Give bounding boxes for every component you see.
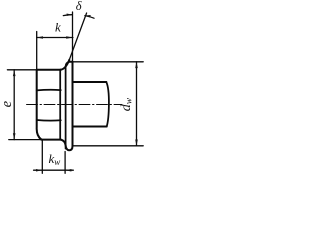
e arrow bottom [13, 133, 16, 139]
hex head top edge [37, 69, 61, 71]
delta arc arrow left tail [63, 14, 72, 17]
k extension line (head face, up) [36, 32, 38, 70]
k dimension line [37, 37, 73, 39]
centerline (bolt axis, dash-dot) [27, 104, 123, 106]
hex face line upper [37, 89, 61, 92]
shank top line [73, 81, 107, 83]
delta arc arrow right head [85, 15, 91, 18]
flange cone (top) [60, 60, 69, 70]
kw dimension line [34, 169, 74, 171]
hex head bottom edge [41, 139, 61, 141]
dw bottom extension line [73, 145, 144, 147]
e bottom extension line [9, 139, 41, 141]
hex face line lower [37, 119, 61, 122]
flange rim line [66, 62, 69, 149]
svg-text:δ: δ [76, 0, 82, 13]
e top extension line [7, 69, 36, 71]
kw arrow right (outside) [65, 169, 71, 172]
dw top extension line [73, 61, 144, 63]
svg-text:k: k [55, 20, 61, 35]
dw arrow top [135, 62, 138, 68]
kw left extension line [41, 140, 43, 174]
e arrow top [13, 70, 16, 76]
shank end (break) [106, 82, 109, 127]
delta arc arrow left head [67, 14, 73, 16]
hex/flange boundary [59, 70, 61, 140]
dw arrow bottom [135, 140, 138, 146]
kw arrow left (outside) [36, 169, 42, 172]
flange bottom [61, 140, 73, 151]
bearing face extension (angle leg, up) [72, 12, 74, 62]
hex head left face [37, 70, 42, 140]
svg-text:kw: kw [49, 151, 61, 167]
e dimension line [13, 70, 15, 140]
svg-text:e: e [0, 100, 15, 107]
dw dimension line [136, 62, 138, 146]
delta arc arrow right tail [85, 16, 94, 19]
delta extension line (cone, diagonal) [69, 13, 86, 60]
shank bottom line [73, 126, 107, 128]
kw right extension line [64, 152, 66, 174]
k arrow right [66, 36, 72, 39]
flange top edge [69, 61, 73, 63]
flange bearing face [72, 62, 74, 146]
k arrow left [37, 36, 43, 39]
